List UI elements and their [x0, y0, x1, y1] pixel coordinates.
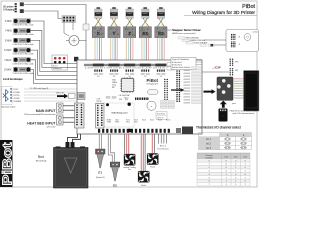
svg-text:E2: E2: [113, 183, 117, 187]
svg-text:BT-TXD: BT-TXD: [14, 95, 21, 97]
svg-text:COM 2 NO 3 NC cable: COM 2 NO 3 NC cable: [13, 34, 34, 36]
wire endstop Z-MIN to board: [30, 40, 79, 71]
wires HEAT BED to board: [63, 117, 75, 119]
wires driver E1 to board: [141, 38, 143, 63]
svg-text:Fan1 Fan2: Fan1 Fan2: [157, 114, 165, 116]
svg-text:press: press: [232, 103, 236, 105]
wire sensor right lead: [79, 40, 86, 42]
svg-text:Therm: Therm: [166, 119, 171, 121]
wires to Fan2: [151, 134, 153, 153]
svg-text:X-STEP DIR EN Y-STEP DIR EN: X-STEP DIR EN Y-STEP DIR EN Z-STEP DIR E…: [85, 68, 165, 70]
ribbon cable: [233, 78, 244, 80]
svg-text:Bed: Bed: [38, 155, 44, 159]
border frame: [1, 1, 257, 187]
wire top-left to board: [24, 5, 86, 61]
wire endstop Z-MAX to board: [30, 70, 79, 84]
svg-text:HotEnd Heating Control: HotEnd Heating Control: [112, 112, 128, 115]
svg-text:X-MIN: X-MIN: [5, 20, 12, 23]
svg-text:PC USB cable (type B): PC USB cable (type B): [30, 87, 49, 90]
header pins endstop Y-MIN: [79, 67, 81, 69]
svg-text:Thermistors I/O channel select: Thermistors I/O channel select: [196, 126, 241, 130]
svg-text:(Heat Bed): (Heat Bed): [36, 160, 47, 163]
header pins endstop X-MIN: [79, 63, 81, 65]
endstop switch X-MAX: [4, 48, 34, 56]
wire sensor left lead: [66, 40, 69, 42]
MAIN INPUT terminal: [57, 103, 64, 113]
wire top-left lower: [24, 11, 62, 19]
stepper driver X: [92, 27, 104, 38]
wires to E1: [98, 134, 100, 149]
stepper motor M3: [126, 7, 133, 18]
svg-text:Z: Z: [128, 31, 131, 36]
svg-text:Ext 1-2: Ext 1-2: [160, 145, 167, 148]
svg-text:Int 1: Int 1: [206, 138, 211, 141]
component C-rot1: [20, 2, 24, 6]
svg-text:HEAT BED INPUT: HEAT BED INPUT: [27, 122, 56, 126]
header pins endstop Y-MAX: [79, 79, 81, 81]
wires motor M5 to driver: [159, 18, 165, 27]
passives below MCU: [106, 97, 110, 99]
fan Fan1: [138, 171, 150, 183]
label box on wire: [83, 24, 89, 30]
fuse F1: [148, 90, 159, 95]
wires bluetooth to board: [24, 88, 77, 90]
PiBot corner logo: [0, 140, 14, 187]
svg-text:PiBot: PiBot: [147, 78, 159, 83]
power input header: [75, 103, 85, 128]
stepper motor M5: [157, 7, 164, 18]
svg-text:BT-GND: BT-GND: [14, 92, 21, 94]
header pins endstop X-MAX: [79, 75, 81, 77]
svg-text:Y-MIN: Y-MIN: [5, 30, 12, 33]
wire board to Pi 1: [204, 39, 226, 41]
svg-text:COM 2 NO 3 NC cable: COM 2 NO 3 NC cable: [13, 54, 34, 56]
jumper pin groups under strip: [94, 70, 95, 72]
main controller board outline: [77, 60, 202, 134]
svg-text:E1: E1: [142, 31, 148, 36]
svg-text:PiBot: PiBot: [0, 141, 14, 185]
sensor circle U-sens: [69, 36, 79, 46]
svg-text:MAIN INPUT: MAIN INPUT: [36, 109, 57, 113]
heat bed: [54, 142, 89, 188]
connector J-top: [62, 16, 75, 23]
sub-board pin block: [96, 104, 105, 129]
svg-text:Stepper Motor Driver: Stepper Motor Driver: [172, 28, 201, 32]
stepper motor M4: [142, 7, 149, 18]
svg-text:Wiring Diagram for 3D Printer: Wiring Diagram for 3D Printer: [192, 10, 255, 16]
svg-text:SPI0: SPI0: [235, 62, 238, 64]
component D-small: [74, 57, 78, 62]
svg-text:16MHz: 16MHz: [112, 82, 117, 84]
wire board to Pi 2: [212, 44, 227, 46]
endstop switch Y-MAX: [4, 58, 33, 66]
svg-text:Y: Y: [112, 31, 115, 36]
label pair boxes: [161, 101, 168, 103]
label Stepper Motor Driver: [167, 29, 171, 31]
wires MAIN INPUT to board: [63, 105, 75, 107]
fan Fan2: [147, 153, 159, 165]
stepper motor M1: [95, 7, 102, 18]
title block underline: [184, 15, 257, 17]
USB connector: [78, 93, 86, 100]
arrow to labels: [171, 88, 185, 92]
svg-text:via hub: via hub: [252, 32, 257, 34]
svg-text:Fan2: Fan2: [150, 119, 154, 121]
MCU U1 QFP: [120, 77, 134, 92]
svg-text:BT-STATE: BT-STATE: [14, 100, 23, 103]
wires driver Z to board: [125, 38, 127, 63]
svg-text:RST: RST: [112, 87, 115, 89]
wire endstop X-MAX to board: [30, 50, 79, 75]
svg-text:(Hotend 1): (Hotend 1): [96, 176, 105, 179]
header pins endstop Z-MIN: [79, 71, 81, 73]
svg-text:COM 2 NO 3 NC cable: COM 2 NO 3 NC cable: [13, 63, 34, 65]
up arrow: [220, 101, 227, 108]
bluetooth module: [2, 87, 13, 105]
svg-text:PiBot HD 3.5 inch Camera Board: PiBot HD 3.5 inch Camera Board: [230, 109, 258, 112]
buzzer BZ1: [147, 101, 156, 110]
header J-aux pins: [164, 79, 165, 80]
svg-text:X: X: [97, 31, 100, 36]
wires thermistors: [158, 134, 160, 144]
svg-text:Fan: Fan: [128, 169, 131, 171]
channel table: [197, 153, 250, 186]
svg-text:Int 3: Int 3: [206, 147, 211, 150]
aux header boxes: [167, 63, 174, 66]
svg-text:pull-up: pull-up: [97, 101, 102, 103]
LCD screen: [244, 71, 260, 112]
svg-text:X-Rotating: X-Rotating: [3, 9, 15, 12]
svg-text:T0 T1 T2: T0 T1 T2: [157, 118, 164, 120]
svg-text:+ SL-2045 16A: + SL-2045 16A: [118, 94, 130, 97]
svg-text:COM 2 NO 3 NC cable: COM 2 NO 3 NC cable: [13, 25, 34, 27]
svg-text:J8: J8: [239, 37, 241, 39]
GPIO label rows: [184, 67, 201, 104]
hotend heating control region: [97, 103, 134, 127]
mounting hole H3: [128, 129, 132, 133]
wire endstop X-MIN to board: [30, 21, 79, 64]
svg-text:Z-MAX: Z-MAX: [4, 69, 12, 72]
svg-text:C22p: C22p: [112, 85, 116, 87]
svg-text:Bluetooth module: Bluetooth module: [2, 106, 16, 109]
connector J-rot pins: [15, 3, 17, 5]
usb arrow: [57, 94, 68, 99]
svg-text:Z-MIN: Z-MIN: [5, 39, 12, 42]
endstop switch Y-MIN: [5, 29, 34, 37]
wire board to ICSP: [202, 71, 229, 73]
svg-text:Output IO distribution: Output IO distribution: [172, 58, 189, 61]
HEAT BED terminal: [57, 115, 64, 125]
svg-text:Fan1: Fan1: [142, 119, 146, 121]
svg-text:T0 T1: T0 T1: [124, 98, 128, 100]
ICSP headers: [230, 59, 231, 60]
wire endstop Y-MAX to board: [30, 60, 79, 80]
svg-text:SPI1: SPI1: [235, 70, 238, 72]
wires IO box to edge: [196, 59, 202, 61]
extruder E2: [110, 162, 120, 181]
output IO distribution box: [171, 58, 196, 70]
wires driver E2 to board: [157, 38, 159, 63]
svg-text:SD: SD: [221, 116, 224, 118]
passives row under strip: [94, 73, 97, 75]
wires to E2: [108, 134, 112, 162]
svg-text:(A4988 driver recommended): (A4988 driver recommended): [172, 32, 196, 35]
svg-text:X-MAX: X-MAX: [4, 49, 12, 52]
svg-text:Fan1: Fan1: [141, 185, 147, 187]
wires motor M4 to driver: [143, 18, 149, 27]
svg-text:(with LCD documentation): (with LCD documentation): [233, 112, 255, 115]
wires motor M2 to driver: [112, 18, 118, 27]
wires to hotend fan: [126, 134, 128, 154]
fan hotend cooling: [124, 154, 136, 166]
extruder E1: [96, 149, 106, 168]
endstop switch X-MIN: [5, 19, 34, 27]
stepper motor M2: [110, 7, 117, 18]
power jack bottom right: [182, 127, 193, 135]
wires driver X to board: [94, 38, 96, 63]
stepper driver E2: [155, 27, 167, 38]
stepper driver Z: [124, 27, 136, 38]
mounting hole H2: [128, 103, 131, 106]
wire endstop Y-MIN to board: [30, 31, 79, 68]
stepper driver E1: [139, 27, 151, 38]
bottom connector strip: [98, 129, 100, 133]
endstop wiring legend box: [52, 55, 68, 70]
svg-text:Limit Endstops: Limit Endstops: [3, 77, 23, 81]
wires bed to board: [68, 134, 78, 142]
wires driver Y to board: [110, 38, 112, 63]
header pins endstop Z-MAX: [79, 83, 81, 85]
mounting hole H1: [106, 103, 109, 106]
wires motor M3 to driver: [127, 18, 133, 27]
wires motor M1 to driver: [96, 18, 102, 27]
svg-text:12V or 24V: 12V or 24V: [47, 127, 57, 129]
svg-text:Fan2: Fan2: [150, 166, 156, 168]
driver wire color legend: [178, 37, 185, 39]
svg-text:←ICSP: ←ICSP: [212, 65, 221, 69]
header GPIO column: [176, 70, 178, 72]
svg-text:BT-RXD: BT-RXD: [14, 98, 21, 100]
arrow to camera: [204, 89, 216, 94]
svg-text:Fan3: Fan3: [158, 119, 162, 121]
endstop switch Z-MIN: [5, 38, 34, 46]
svg-text:COM 2 NO 3 NC cable: COM 2 NO 3 NC cable: [13, 44, 34, 46]
svg-text:for Raspberry Pi: for Raspberry Pi: [147, 84, 159, 86]
wire from J-top down: [64, 22, 69, 36]
svg-text:Y-MAX: Y-MAX: [4, 59, 12, 62]
svg-text:USB 1.4M: USB 1.4M: [56, 92, 64, 94]
wires to Fan1: [140, 134, 142, 171]
thermistor header pins: [135, 98, 136, 100]
svg-text:Int 2: Int 2: [206, 143, 211, 146]
svg-text:E1: E1: [98, 170, 102, 174]
svg-text:PiBot: PiBot: [242, 4, 255, 10]
endstop switch Z-MAX: [4, 67, 33, 75]
svg-text:J3: J3: [239, 44, 241, 46]
svg-text:Thermistors: Thermistors: [157, 147, 169, 150]
svg-text:Bed: Bed: [116, 119, 119, 121]
top header strip: [84, 64, 166, 66]
jumper config table: [156, 112, 167, 120]
component C-rot2: [20, 9, 24, 13]
camera board: [217, 77, 233, 100]
svg-text:COM 2 NO 3 NC cable: COM 2 NO 3 NC cable: [13, 73, 34, 75]
SD card: [219, 109, 228, 122]
stepper driver Y: [108, 27, 120, 38]
jumper select table: [199, 133, 252, 150]
Raspberry Pi board: [226, 30, 259, 52]
svg-text:12V(recommended)/24V auto-dete: 12V(recommended)/24V auto-detection: [24, 113, 55, 116]
svg-text:E2: E2: [158, 31, 164, 36]
